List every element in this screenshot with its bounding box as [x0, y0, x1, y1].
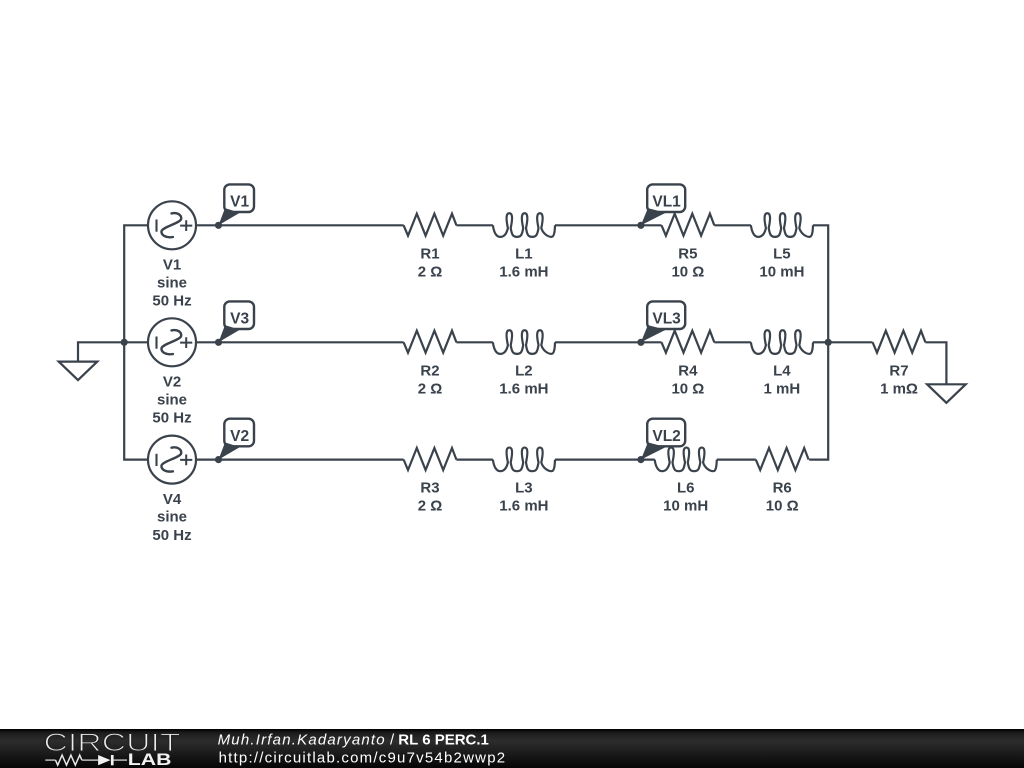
svg-text:V2: V2: [163, 374, 181, 391]
svg-text:V2: V2: [230, 428, 249, 445]
svg-text:V3: V3: [230, 311, 249, 328]
resistor R7: [873, 331, 926, 353]
wire R5 to L5: [714, 224, 751, 226]
svg-text:1.6 mH: 1.6 mH: [499, 498, 548, 515]
logo wire mid: [82, 759, 98, 761]
flag V2 (net label row3): [224, 419, 254, 447]
flag VL3: [647, 301, 685, 329]
node A3: [215, 456, 222, 463]
svg-text:R3: R3: [420, 480, 439, 497]
svg-text:10 Ω: 10 Ω: [766, 498, 799, 515]
inductor L3: [493, 448, 555, 472]
wire V4 to R3: [196, 459, 404, 461]
node B1: [637, 222, 644, 229]
logo wire left: [45, 759, 55, 761]
svg-text:V4: V4: [163, 491, 182, 508]
svg-text:2 Ω: 2 Ω: [418, 263, 443, 280]
wire V2 to R2: [196, 341, 404, 343]
resistor R6: [756, 448, 809, 470]
svg-text:LAB: LAB: [128, 750, 172, 768]
logo resistor: [56, 755, 82, 765]
svg-text:http://circuitlab.com/c9u7v54b: http://circuitlab.com/c9u7v54b2wwp2: [219, 749, 506, 766]
svg-text:Muh.Irfan.Kadaryanto / RL 6 PE: Muh.Irfan.Kadaryanto / RL 6 PERC.1: [218, 732, 489, 749]
svg-text:L1: L1: [515, 245, 533, 262]
node B3: [637, 456, 644, 463]
wire ground stub left: [78, 342, 124, 361]
svg-text:10 mH: 10 mH: [759, 263, 804, 280]
wire L3 to L6: [555, 459, 655, 461]
svg-text:R4: R4: [678, 362, 698, 379]
resistor R4: [662, 331, 715, 353]
wire L2 to R4: [555, 341, 662, 343]
resistor R1: [404, 214, 457, 236]
svg-text:50 Hz: 50 Hz: [152, 527, 191, 544]
wire left bus: [124, 225, 148, 459]
wire L4 to right bus: [813, 341, 828, 343]
wire R7 to ground: [925, 342, 946, 384]
resistor R3: [404, 448, 457, 470]
inductor L1: [493, 213, 555, 237]
svg-text:R1: R1: [420, 245, 439, 262]
svg-text:V1: V1: [163, 257, 181, 274]
voltage source V1: [148, 201, 196, 249]
svg-text:R2: R2: [420, 362, 439, 379]
svg-text:10 Ω: 10 Ω: [671, 263, 704, 280]
svg-text:sine: sine: [157, 509, 187, 526]
svg-text:VL2: VL2: [652, 428, 680, 445]
svg-text:L4: L4: [773, 362, 791, 379]
inductor L6: [655, 448, 717, 472]
svg-text:1.6 mH: 1.6 mH: [499, 380, 548, 397]
flag V3: [224, 301, 254, 329]
svg-text:1.6 mH: 1.6 mH: [499, 263, 548, 280]
flag VL2: [647, 419, 685, 447]
svg-text:R5: R5: [678, 245, 697, 262]
svg-text:10 Ω: 10 Ω: [671, 380, 704, 397]
svg-text:2 Ω: 2 Ω: [418, 498, 443, 515]
flag VL1: [647, 184, 685, 212]
svg-text:50 Hz: 50 Hz: [152, 410, 191, 427]
flag V1: [224, 184, 254, 212]
svg-text:50 Hz: 50 Hz: [152, 293, 191, 310]
wire L1 to R5: [555, 224, 662, 226]
svg-text:L3: L3: [515, 480, 533, 497]
svg-text:sine: sine: [157, 274, 187, 291]
svg-text:L6: L6: [677, 480, 695, 497]
resistor R5: [662, 214, 715, 236]
svg-text:L2: L2: [515, 362, 533, 379]
wire R2 to L2: [456, 341, 493, 343]
inductor L2: [493, 330, 555, 354]
svg-text:1 mΩ: 1 mΩ: [880, 380, 918, 397]
svg-text:10 mH: 10 mH: [663, 498, 708, 515]
logo wire right: [114, 759, 127, 761]
svg-text:2 Ω: 2 Ω: [418, 380, 443, 397]
svg-text:L5: L5: [773, 245, 791, 262]
svg-text:R7: R7: [889, 362, 908, 379]
node B2: [637, 339, 644, 346]
wire L6 to R6: [717, 459, 756, 461]
logo diode: [98, 755, 110, 765]
svg-text:VL1: VL1: [652, 194, 681, 211]
svg-text:sine: sine: [157, 391, 187, 408]
node junction right bus: [825, 339, 832, 346]
wire right bus: [809, 225, 828, 459]
wire R1 to L1: [456, 224, 493, 226]
svg-text:R6: R6: [773, 480, 792, 497]
wire R4 to L4: [714, 341, 751, 343]
voltage source V4: [148, 436, 196, 484]
svg-text:V1: V1: [230, 194, 249, 211]
wire R3 to L3: [456, 459, 493, 461]
svg-text:1 mH: 1 mH: [764, 380, 801, 397]
node A1: [215, 222, 222, 229]
resistor R2: [404, 331, 457, 353]
node junction left bus: [121, 339, 128, 346]
node A2: [215, 339, 222, 346]
wire bus to R7: [828, 341, 872, 343]
svg-text:VL3: VL3: [652, 311, 681, 328]
wire V1 to R1: [196, 224, 404, 226]
voltage source V2: [148, 318, 196, 366]
inductor L4: [751, 330, 813, 354]
ground GND2: [927, 384, 966, 403]
inductor L5: [751, 213, 813, 237]
wire V2 left stub: [124, 341, 148, 343]
ground GND1: [59, 362, 98, 381]
